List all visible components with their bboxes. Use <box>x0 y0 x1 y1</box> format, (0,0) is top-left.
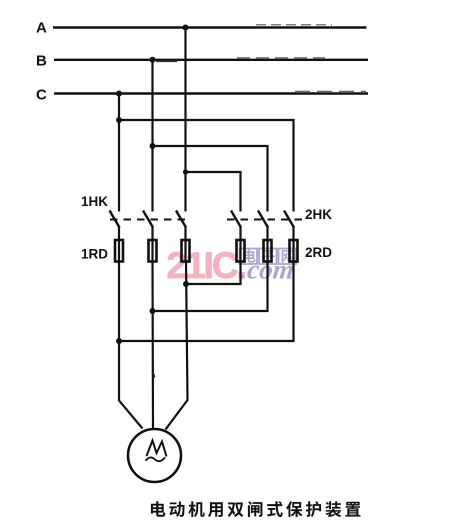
label 1RD <box>81 247 108 262</box>
node on line A <box>183 25 189 31</box>
wire vertical from C <box>118 94 120 212</box>
node on line B <box>150 57 156 63</box>
phase line A <box>53 26 367 28</box>
wire pole1 blade to fuse <box>118 227 120 241</box>
svg-text:2HK: 2HK <box>305 207 332 222</box>
motor M glyph <box>147 441 167 457</box>
scan smudge on line B <box>156 60 177 62</box>
switch 2HK pole 4 blade <box>231 211 241 228</box>
motor M1 circle <box>128 429 181 482</box>
node A branch <box>183 169 188 174</box>
switch 2HK pole 5 blade <box>258 211 268 228</box>
wire pole4 blade to fuse <box>239 227 241 241</box>
switch 2HK pole 6 blade <box>284 211 294 228</box>
fuse 2RD pole 4 <box>237 240 245 262</box>
label C <box>36 87 47 104</box>
node pole2 link <box>150 308 156 314</box>
wire pole5 to pole2 (cross link) <box>153 262 268 312</box>
wire pole1 to motor <box>119 262 143 429</box>
fuse 1RD pole 3 <box>182 240 190 262</box>
wire vertical from B <box>151 60 153 212</box>
svg-text:A: A <box>36 20 47 37</box>
svg-text:1HK: 1HK <box>81 194 108 209</box>
label 2RD <box>305 245 332 260</box>
wire pole2 to motor <box>151 262 154 429</box>
label A <box>36 20 47 37</box>
switch 1HK pole 1 blade <box>110 211 120 228</box>
wire pole5 blade to fuse <box>266 227 268 241</box>
wire pole3 to motor <box>166 262 188 430</box>
label 2HK <box>305 207 332 222</box>
wire crossover A to pole 4 <box>186 172 241 212</box>
fuse 1RD pole 1 <box>115 240 123 262</box>
scan artifact above line A <box>256 24 332 26</box>
node B branch <box>150 143 156 149</box>
svg-text:1RD: 1RD <box>81 247 108 262</box>
scan tick on pole2 feeder <box>153 372 155 378</box>
wire crossover B to pole 5 <box>153 146 268 212</box>
wire pole6 to pole1 (cross link) <box>119 262 294 342</box>
svg-text:2RD: 2RD <box>305 245 332 260</box>
node pole1 link <box>116 338 122 344</box>
wire pole4 to pole3 (cross link) <box>186 262 241 285</box>
wire pole6 blade to fuse <box>292 227 294 241</box>
wire pole3 blade to fuse <box>184 227 186 241</box>
svg-text:C: C <box>36 87 47 104</box>
wire vertical from A <box>184 28 186 212</box>
fuse 2RD pole 6 <box>290 240 298 262</box>
fuse 1RD pole 2 <box>149 240 157 262</box>
caption 电动机用双闸式保护装置 <box>151 501 361 517</box>
fuse 2RD pole 5 <box>264 240 272 262</box>
linkage 2HK (dashed) <box>227 219 302 221</box>
scan artifact above line C <box>295 90 366 92</box>
wire pole2 blade to fuse <box>151 227 153 241</box>
phase line B <box>54 59 368 61</box>
phase line C <box>54 92 368 94</box>
node on line C <box>116 91 122 97</box>
linkage 1HK (dashed) <box>110 219 191 221</box>
svg-text:B: B <box>36 53 47 70</box>
switch 1HK pole 2 blade <box>143 211 153 228</box>
watermark 电子网 text <box>243 249 294 262</box>
watermark 电子网 boxes <box>240 249 297 265</box>
scan artifact above line B <box>237 57 325 59</box>
node C branch <box>116 117 122 123</box>
svg-text:21IC.: 21IC. <box>167 245 245 286</box>
node pole3 link <box>183 281 189 287</box>
switch 1HK pole 3 blade <box>176 211 186 228</box>
label 1HK <box>81 194 108 209</box>
watermark .com <box>239 255 295 285</box>
wire crossover C to pole 6 <box>119 120 294 212</box>
watermark 21IC <box>167 245 245 286</box>
label B <box>36 53 47 70</box>
motor tilde <box>146 457 166 461</box>
